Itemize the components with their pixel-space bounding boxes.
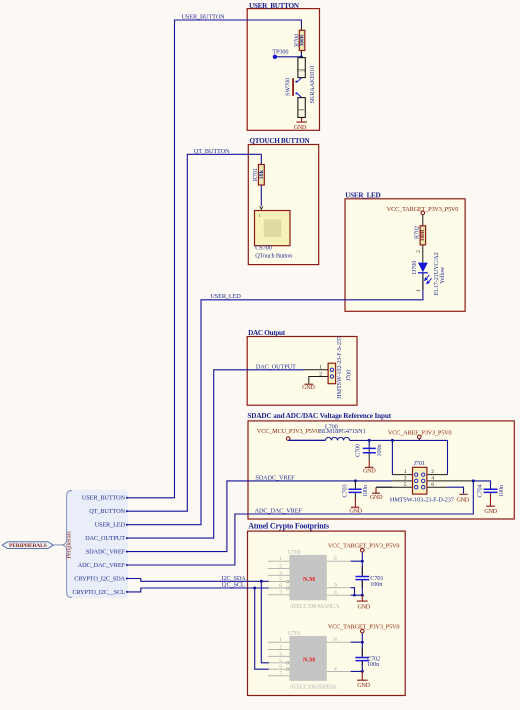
svg-text:Peripherals: Peripherals bbox=[67, 531, 73, 559]
svg-text:QTouch Button: QTouch Button bbox=[255, 252, 293, 259]
svg-text:USER_BUTTON: USER_BUTTON bbox=[249, 2, 300, 10]
svg-text:2: 2 bbox=[319, 371, 322, 377]
svg-text:8: 8 bbox=[334, 637, 337, 643]
svg-text:ADC_DAC_VREF: ADC_DAC_VREF bbox=[78, 562, 126, 569]
svg-text:BLM18PG471SN1: BLM18PG471SN1 bbox=[319, 428, 366, 435]
svg-text:DAC_OUTPUT: DAC_OUTPUT bbox=[85, 535, 125, 542]
svg-text:TP300: TP300 bbox=[272, 48, 288, 55]
svg-text:3: 3 bbox=[279, 570, 282, 576]
svg-text:Yellow: Yellow bbox=[439, 266, 446, 284]
svg-text:100n: 100n bbox=[362, 484, 369, 497]
svg-text:USER_LED: USER_LED bbox=[95, 522, 126, 529]
svg-text:100n: 100n bbox=[367, 661, 380, 668]
svg-text:D700: D700 bbox=[411, 261, 418, 274]
svg-text:N.M: N.M bbox=[303, 576, 315, 583]
svg-text:SDADC_VREF: SDADC_VREF bbox=[86, 548, 126, 555]
svg-text:1: 1 bbox=[279, 556, 282, 562]
svg-text:2: 2 bbox=[279, 563, 282, 569]
svg-text:1: 1 bbox=[416, 289, 422, 292]
svg-text:5: 5 bbox=[279, 658, 282, 664]
svg-text:6: 6 bbox=[279, 664, 282, 670]
svg-text:4: 4 bbox=[302, 69, 308, 72]
svg-text:GND: GND bbox=[484, 508, 497, 515]
svg-text:VCC_MCU_P3V3_P5V0: VCC_MCU_P3V3_P5V0 bbox=[257, 428, 319, 435]
svg-text:2: 2 bbox=[431, 469, 434, 475]
svg-text:1: 1 bbox=[279, 637, 282, 643]
svg-text:9: 9 bbox=[334, 583, 337, 589]
svg-text:GND: GND bbox=[349, 507, 362, 514]
svg-text:USER_LED: USER_LED bbox=[345, 192, 380, 200]
svg-text:ADC_DAC_VREF: ADC_DAC_VREF bbox=[255, 507, 303, 514]
svg-text:CRYPTO_I2C__SCL: CRYPTO_I2C__SCL bbox=[72, 589, 125, 596]
svg-text:PERIPHERALS: PERIPHERALS bbox=[9, 543, 47, 549]
svg-text:USER_LED: USER_LED bbox=[210, 293, 241, 300]
svg-text:GND: GND bbox=[302, 384, 315, 391]
svg-text:2: 2 bbox=[302, 108, 308, 111]
svg-text:4: 4 bbox=[431, 476, 434, 482]
svg-text:GND: GND bbox=[357, 682, 370, 689]
svg-text:300R: 300R bbox=[299, 34, 305, 46]
svg-text:GND: GND bbox=[358, 603, 371, 610]
svg-text:J701: J701 bbox=[414, 460, 425, 467]
svg-text:4: 4 bbox=[334, 666, 337, 672]
svg-text:VCC_TARGET_P3V3_P5V0: VCC_TARGET_P3V3_P5V0 bbox=[328, 543, 399, 550]
svg-text:300R: 300R bbox=[420, 229, 426, 241]
svg-text:SDADC_VREF: SDADC_VREF bbox=[255, 474, 295, 481]
svg-text:6: 6 bbox=[279, 583, 282, 589]
svg-text:HMTSW-103-23-F-D-237: HMTSW-103-23-F-D-237 bbox=[390, 496, 454, 503]
svg-text:1: 1 bbox=[404, 469, 407, 475]
svg-text:VCC_TARGET_P3V3_P5V0: VCC_TARGET_P3V3_P5V0 bbox=[387, 206, 458, 213]
svg-text:8: 8 bbox=[334, 556, 337, 562]
svg-text:1: 1 bbox=[259, 213, 261, 218]
svg-text:ATECC108-MAHCA: ATECC108-MAHCA bbox=[289, 603, 340, 610]
svg-text:DAC Output: DAC Output bbox=[248, 329, 286, 337]
svg-text:6: 6 bbox=[431, 482, 434, 488]
svg-text:USER_BUTTON: USER_BUTTON bbox=[82, 495, 126, 502]
svg-text:GND: GND bbox=[370, 494, 383, 501]
svg-text:C703: C703 bbox=[342, 484, 349, 497]
svg-text:7: 7 bbox=[279, 590, 282, 596]
svg-text:2: 2 bbox=[279, 644, 282, 650]
svg-text:U700: U700 bbox=[288, 549, 301, 556]
svg-text:VCC_TARGET_P3V3_P5V0: VCC_TARGET_P3V3_P5V0 bbox=[328, 623, 399, 630]
svg-text:2: 2 bbox=[416, 250, 422, 253]
svg-text:10k: 10k bbox=[259, 169, 265, 179]
svg-text:C704: C704 bbox=[477, 483, 484, 497]
svg-text:ATECC108-SSHDA: ATECC108-SSHDA bbox=[289, 684, 337, 691]
svg-text:C700: C700 bbox=[355, 444, 362, 457]
svg-text:QT_BUTTON: QT_BUTTON bbox=[89, 508, 125, 515]
svg-text:1: 1 bbox=[319, 364, 322, 370]
svg-text:7: 7 bbox=[279, 671, 282, 677]
svg-text:QTOUCH BUTTON: QTOUCH BUTTON bbox=[250, 137, 311, 145]
svg-text:N.M: N.M bbox=[303, 657, 315, 664]
svg-text:GND: GND bbox=[457, 496, 470, 503]
svg-text:I2C_SCL: I2C_SCL bbox=[222, 581, 245, 588]
svg-text:J700: J700 bbox=[346, 370, 353, 381]
svg-text:5: 5 bbox=[279, 577, 282, 583]
svg-text:100n: 100n bbox=[376, 444, 383, 457]
svg-text:DAC_OUTPUT: DAC_OUTPUT bbox=[256, 364, 296, 371]
svg-text:SW700: SW700 bbox=[284, 78, 291, 96]
svg-text:SKRAAKE010: SKRAAKE010 bbox=[309, 66, 316, 104]
svg-text:4: 4 bbox=[334, 590, 337, 596]
svg-text:HMTSW-102-23-F-S-237: HMTSW-102-23-F-S-237 bbox=[336, 336, 343, 399]
svg-text:VCC_AREF_P3V3_P5V0: VCC_AREF_P3V3_P5V0 bbox=[388, 430, 452, 437]
svg-text:USER_BUTTON: USER_BUTTON bbox=[182, 14, 226, 21]
svg-text:3: 3 bbox=[279, 651, 282, 657]
svg-text:3: 3 bbox=[404, 476, 407, 482]
svg-text:100n: 100n bbox=[498, 484, 505, 497]
svg-text:QT_BUTTON: QT_BUTTON bbox=[194, 148, 230, 155]
svg-text:100n: 100n bbox=[370, 581, 383, 588]
svg-text:GND: GND bbox=[294, 124, 307, 131]
svg-text:5: 5 bbox=[404, 482, 407, 488]
svg-text:SDADC and ADC/DAC Voltage Refe: SDADC and ADC/DAC Voltage Reference Inpu… bbox=[247, 412, 391, 420]
svg-text:CRYPTO_I2C_SDA: CRYPTO_I2C_SDA bbox=[74, 575, 125, 582]
svg-text:GND: GND bbox=[363, 468, 376, 475]
svg-text:Atmel Crypto Footprints: Atmel Crypto Footprints bbox=[248, 522, 329, 531]
svg-text:CS700: CS700 bbox=[255, 245, 271, 252]
svg-text:U701: U701 bbox=[288, 630, 301, 637]
